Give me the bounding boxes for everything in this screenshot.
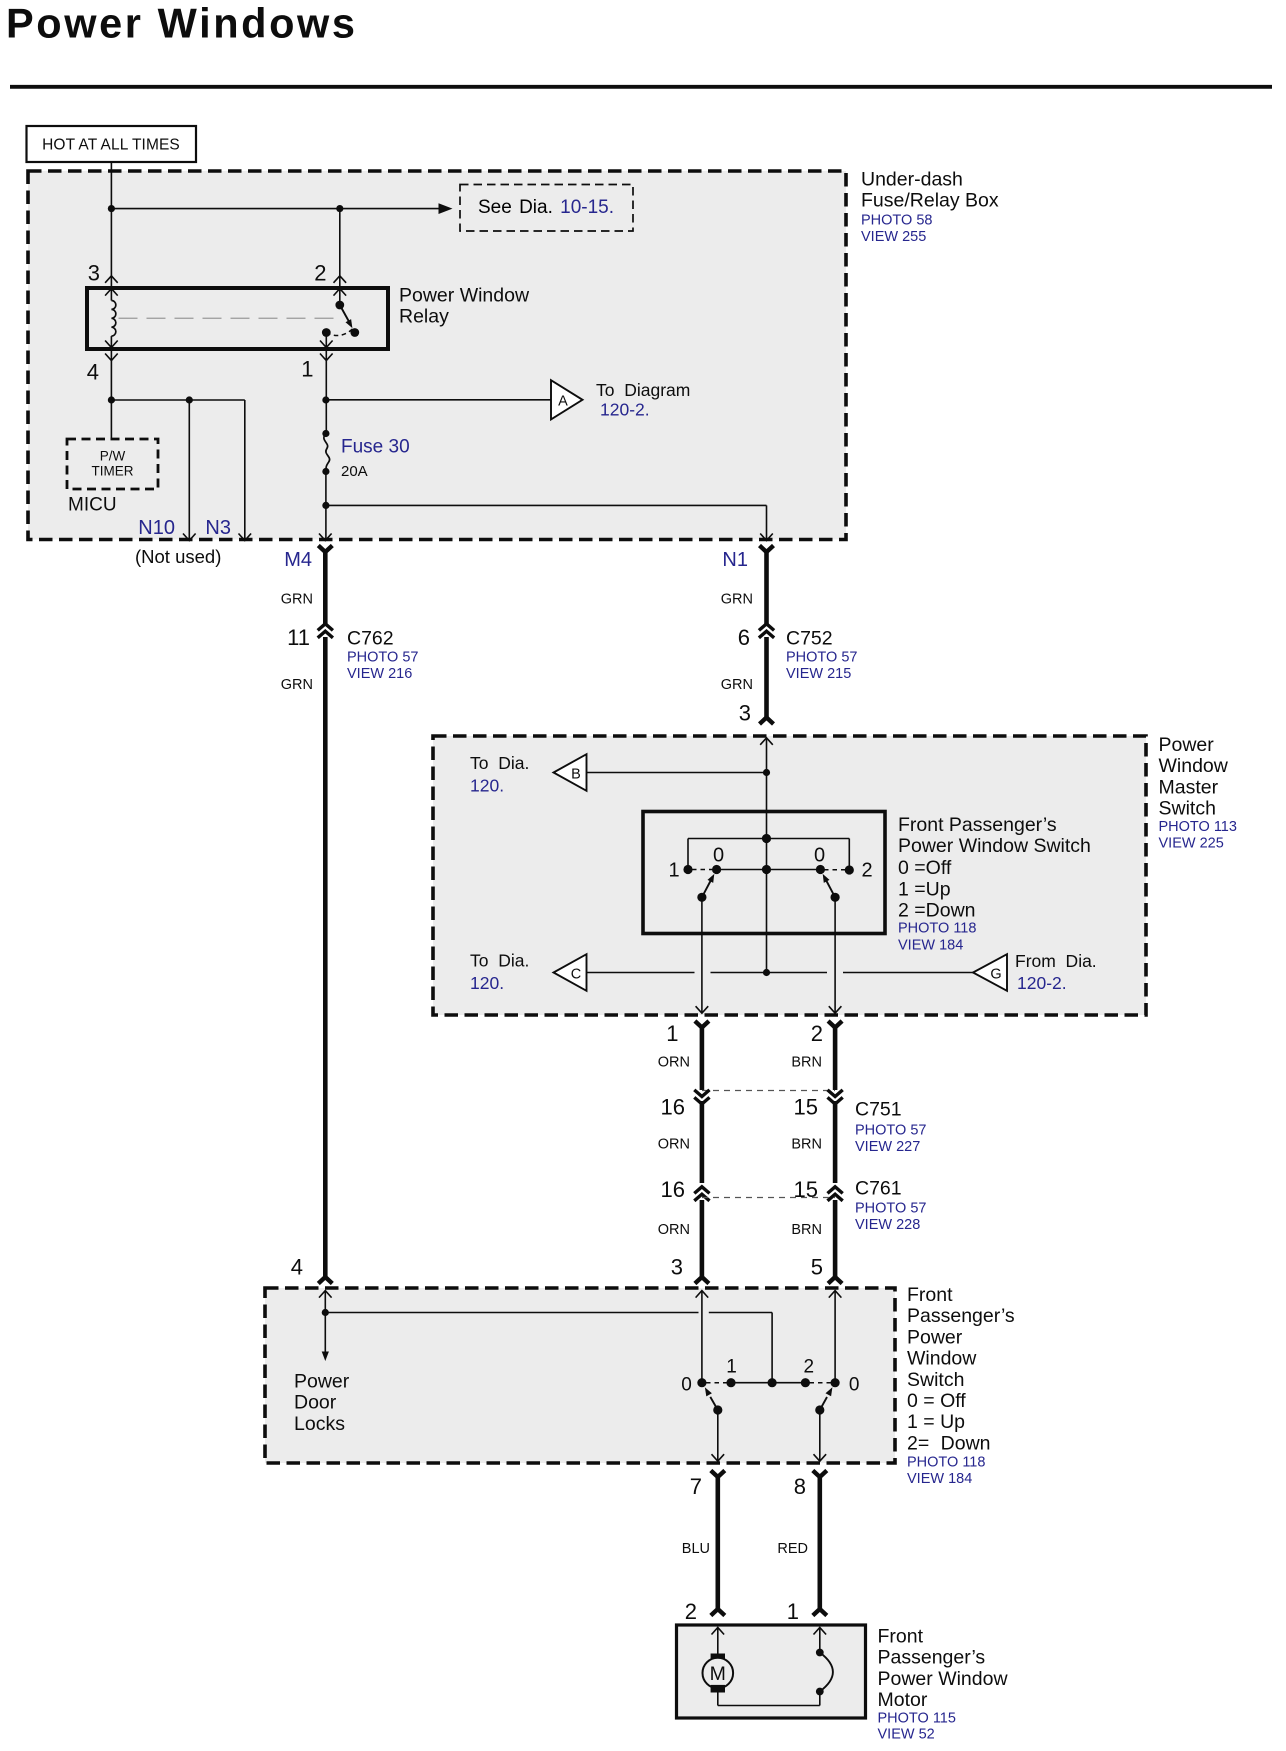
svg-text:0: 0 bbox=[814, 845, 825, 867]
svg-text:0: 0 bbox=[713, 845, 724, 867]
label GRN bbox=[281, 592, 313, 608]
svg-text:VIEW 225: VIEW 225 bbox=[1159, 836, 1224, 852]
pin 2 border chevron (master bottom) bbox=[829, 1006, 842, 1013]
node junction to B bbox=[763, 769, 770, 776]
svg-text:VIEW 216: VIEW 216 bbox=[347, 666, 412, 682]
wire fuse output down bbox=[325, 472, 327, 540]
svg-text:120.: 120. bbox=[470, 973, 504, 993]
svg-text:BRN: BRN bbox=[791, 1055, 822, 1071]
pin 6 label bbox=[738, 625, 750, 650]
svg-text:RED: RED bbox=[777, 1541, 808, 1557]
fuse 30 top node bbox=[322, 430, 329, 437]
fuse 30 bottom node bbox=[322, 468, 329, 475]
svg-text:GRN: GRN bbox=[721, 677, 753, 693]
wire hot feed down to relay pin 3 bbox=[110, 162, 112, 301]
connector C751 symbol left bbox=[694, 1090, 709, 1104]
wire power bus horizontal (lower) bbox=[325, 1312, 772, 1314]
label PHOTO 118 / VIEW 184 (master) bbox=[898, 921, 976, 954]
svg-text:VIEW 255: VIEW 255 bbox=[861, 229, 926, 245]
wire N1 drop bbox=[766, 505, 768, 539]
wire GRN trunk N1 (thick) bbox=[760, 546, 774, 625]
node junction power door locks bbox=[322, 1309, 329, 1316]
svg-text:PHOTO 113: PHOTO 113 bbox=[1159, 819, 1237, 835]
front passenger power window switch box outline bbox=[265, 1288, 895, 1463]
svg-text:1: 1 bbox=[726, 1357, 737, 1378]
label BRN middle bbox=[791, 1137, 822, 1153]
front passenger power window switch (in master) box bbox=[643, 812, 885, 934]
label (Not used) bbox=[135, 546, 221, 567]
pin 4 terminal chevrons bbox=[105, 341, 118, 361]
svg-text:C: C bbox=[571, 967, 581, 983]
label Front Passengers Power Window Switch (lower) bbox=[907, 1284, 1015, 1454]
svg-text:1 =Up: 1 =Up bbox=[898, 879, 951, 901]
wire to triangle A bbox=[326, 399, 551, 401]
label GRN below C762 bbox=[281, 677, 313, 693]
svg-text:120-2.: 120-2. bbox=[1017, 973, 1067, 993]
wire GRN trunk below C762 (thick) bbox=[318, 637, 332, 1284]
wire branch down to relay pin 2 bbox=[339, 209, 341, 305]
pin 3 label lower box bbox=[671, 1255, 683, 1280]
svg-text:3: 3 bbox=[88, 261, 100, 286]
svg-text:120-2.: 120-2. bbox=[600, 400, 650, 420]
svg-text:Power: Power bbox=[1159, 734, 1215, 756]
See Dia. 10-15. reference box bbox=[460, 185, 633, 232]
svg-text:0: 0 bbox=[681, 1375, 692, 1396]
svg-text:From Dia.: From Dia. bbox=[1015, 951, 1097, 971]
wire pin 4 feed down bbox=[324, 1291, 326, 1313]
N1 border chevron bbox=[760, 534, 773, 541]
svg-text:GRN: GRN bbox=[281, 592, 313, 608]
svg-text:VIEW 227: VIEW 227 bbox=[855, 1139, 920, 1155]
wire motor bottom loop bbox=[718, 1692, 820, 1706]
label C761 bbox=[855, 1178, 902, 1200]
arrow to power door locks bbox=[322, 1313, 329, 1362]
svg-text:2: 2 bbox=[685, 1599, 697, 1624]
motor M1 symbol bbox=[703, 1654, 734, 1693]
switch arm left (lower) bbox=[705, 1387, 723, 1414]
svg-text:N3: N3 bbox=[205, 517, 231, 539]
svg-text:ORN: ORN bbox=[658, 1222, 690, 1238]
wire pin 3 feed bbox=[766, 738, 768, 810]
pin 2 label below master bbox=[811, 1021, 823, 1046]
connector triangle A To Diagram 120-2 bbox=[551, 380, 583, 419]
pin 8 border chevron bbox=[814, 1454, 827, 1461]
relay common contact pin 1 bbox=[322, 328, 331, 337]
node bus center bbox=[762, 834, 771, 843]
svg-text:Front: Front bbox=[878, 1626, 924, 1648]
wire pin 5 down to contact (lower) bbox=[834, 1291, 836, 1383]
under-dash fuse/relay box outline bbox=[28, 171, 846, 540]
connector triangle C To Dia 120 bbox=[554, 954, 587, 991]
connector C761 dashed pair line bbox=[702, 1197, 835, 1199]
svg-text:G: G bbox=[990, 967, 1001, 983]
svg-text:15: 15 bbox=[794, 1095, 818, 1120]
label 0 left contact bbox=[713, 845, 724, 867]
label 0 right (lower) bbox=[849, 1375, 860, 1396]
pin 3 label master switch bbox=[739, 701, 751, 726]
svg-text:2: 2 bbox=[861, 860, 872, 882]
svg-text:8: 8 bbox=[794, 1474, 806, 1499]
wire pivot right down to pin 8 bbox=[819, 1410, 821, 1461]
wire BLU (thick) bbox=[711, 1471, 725, 1616]
contact line solid (lower) bbox=[731, 1382, 805, 1384]
svg-text:GRN: GRN bbox=[281, 677, 313, 693]
svg-text:4: 4 bbox=[291, 1255, 303, 1280]
svg-text:16: 16 bbox=[661, 1095, 685, 1120]
pin 5 label lower box bbox=[811, 1255, 823, 1280]
svg-text:To Dia.: To Dia. bbox=[470, 951, 529, 971]
connector C761 symbol left bbox=[694, 1187, 709, 1201]
svg-text:VIEW 228: VIEW 228 bbox=[855, 1217, 920, 1233]
svg-text:PHOTO 57: PHOTO 57 bbox=[855, 1123, 926, 1139]
label M4 bbox=[284, 549, 312, 571]
svg-text:3: 3 bbox=[671, 1255, 683, 1280]
label PHOTO 58 / VIEW 255 bbox=[861, 213, 932, 245]
svg-text:2 =Down: 2 =Down bbox=[898, 900, 976, 922]
svg-text:Master: Master bbox=[1159, 776, 1219, 798]
svg-text:PHOTO 57: PHOTO 57 bbox=[786, 650, 857, 666]
node contact 1 (lower) bbox=[726, 1378, 735, 1387]
node contact 2 bbox=[845, 865, 854, 874]
svg-text:1: 1 bbox=[668, 860, 679, 882]
C-G crossover line bbox=[587, 972, 974, 974]
label PHOTO 113 / VIEW 225 bbox=[1159, 819, 1237, 851]
svg-text:BRN: BRN bbox=[791, 1222, 822, 1238]
pin 1 border chevron (motor) bbox=[814, 1628, 827, 1635]
svg-text:PHOTO 118: PHOTO 118 bbox=[907, 1455, 985, 1471]
label 120-2. (G) bbox=[1017, 973, 1067, 993]
svg-text:PHOTO 118: PHOTO 118 bbox=[898, 921, 976, 937]
svg-text:P/W: P/W bbox=[100, 449, 126, 464]
label BRN lower bbox=[791, 1222, 822, 1238]
svg-text:Window: Window bbox=[907, 1348, 977, 1370]
node junction hot feed bbox=[108, 205, 115, 212]
label Under-dash Fuse/Relay Box bbox=[861, 169, 999, 212]
node contact 0 left (lower) bbox=[697, 1378, 706, 1387]
label C751 bbox=[855, 1099, 902, 1121]
svg-text:PHOTO 57: PHOTO 57 bbox=[347, 650, 418, 666]
label C752 bbox=[786, 628, 833, 650]
pin 2 border chevron (motor) bbox=[712, 1628, 725, 1635]
svg-text:15: 15 bbox=[794, 1177, 818, 1202]
node contact 0 left bbox=[712, 865, 721, 874]
relay coil bbox=[111, 301, 115, 401]
node junction M4/N1 split bbox=[322, 502, 329, 509]
circuit breaker (motor) bbox=[816, 1649, 833, 1696]
pin 1 label motor bbox=[787, 1599, 799, 1624]
svg-text:0: 0 bbox=[849, 1375, 860, 1396]
label GRN right bbox=[721, 592, 753, 608]
wire ORN middle (thick) bbox=[700, 1101, 705, 1183]
svg-text:See Dia. 10-15.: See Dia. 10-15. bbox=[478, 197, 614, 218]
wire to triangle B bbox=[587, 772, 767, 774]
label HOT AT ALL TIMES bbox=[27, 126, 197, 162]
svg-text:PHOTO 57: PHOTO 57 bbox=[855, 1201, 926, 1217]
pin 16 label (C751) bbox=[661, 1095, 685, 1120]
label Power Window Master Switch bbox=[1159, 734, 1229, 820]
wire center feed through inner box bbox=[766, 810, 768, 935]
node junction to diagram A bbox=[322, 396, 329, 403]
svg-text:1: 1 bbox=[666, 1021, 678, 1046]
svg-text:Power: Power bbox=[294, 1371, 350, 1393]
dashed throw left (lower) bbox=[706, 1382, 727, 1384]
label 1 (lower) bbox=[726, 1357, 737, 1378]
wire relay pin1 down bbox=[325, 333, 327, 434]
node junction center on C-G line bbox=[763, 969, 770, 976]
svg-text:Switch: Switch bbox=[1159, 798, 1216, 820]
label Front Passengers Power Window Switch bbox=[898, 814, 1091, 922]
relay arm dashed throw bbox=[326, 329, 352, 336]
svg-text:2: 2 bbox=[811, 1021, 823, 1046]
title rule bbox=[10, 85, 1272, 89]
pin 1 label bbox=[301, 357, 313, 382]
label 2 (lower) bbox=[804, 1357, 815, 1378]
svg-text:Passenger’s: Passenger’s bbox=[907, 1305, 1015, 1327]
label ORN middle bbox=[658, 1137, 690, 1153]
svg-text:BRN: BRN bbox=[791, 1137, 822, 1153]
pin 2 terminal chevrons bbox=[334, 276, 347, 296]
svg-text:VIEW 215: VIEW 215 bbox=[786, 666, 851, 682]
svg-text:4: 4 bbox=[87, 360, 99, 385]
svg-text:N10: N10 bbox=[138, 517, 175, 539]
svg-text:Front: Front bbox=[907, 1284, 953, 1306]
svg-text:To Dia.: To Dia. bbox=[470, 753, 529, 773]
switch arm right (master) bbox=[823, 874, 840, 902]
wire GRN below C752 (thick) bbox=[760, 637, 774, 724]
label 1 contact bbox=[668, 860, 679, 882]
wire to See Dia arrow bbox=[111, 208, 438, 210]
svg-text:Motor: Motor bbox=[878, 1689, 928, 1711]
node center middle bbox=[762, 865, 771, 874]
wire N10 drop bbox=[188, 400, 190, 540]
label Power Window Relay bbox=[399, 285, 530, 328]
node junction N10 branch bbox=[186, 396, 193, 403]
label PHOTO 57 / VIEW 216 bbox=[347, 650, 418, 683]
wire BRN lower (thick) bbox=[828, 1200, 842, 1284]
svg-text:7: 7 bbox=[690, 1474, 702, 1499]
svg-text:TIMER: TIMER bbox=[92, 464, 134, 479]
pin 4 border chevron (lower) bbox=[319, 1291, 332, 1298]
pin 7 label bbox=[690, 1474, 702, 1499]
wire BRN middle (thick) bbox=[833, 1101, 838, 1183]
svg-text:B: B bbox=[571, 767, 581, 783]
connector C751 symbol right bbox=[828, 1090, 843, 1104]
wire center feed down to C/G line bbox=[766, 935, 768, 973]
svg-text:6: 6 bbox=[738, 625, 750, 650]
pin 1 terminal chevrons bbox=[320, 341, 333, 361]
dashed throw left (master) bbox=[692, 869, 713, 871]
label N1 bbox=[722, 549, 748, 571]
svg-text:N1: N1 bbox=[722, 549, 748, 571]
label BLU bbox=[682, 1541, 710, 1557]
wire ORN lower (thick) bbox=[695, 1200, 709, 1284]
pin 3 border chevron (lower) bbox=[696, 1291, 709, 1298]
svg-text:Power Windows: Power Windows bbox=[6, 0, 358, 47]
label N10 bbox=[138, 517, 175, 539]
wire pivot left down to pin 7 bbox=[717, 1410, 719, 1461]
wire pin 3 down to contact (lower) bbox=[701, 1291, 703, 1383]
svg-text:Window: Window bbox=[1159, 755, 1229, 777]
svg-text:5: 5 bbox=[811, 1255, 823, 1280]
front passenger power window motor box bbox=[677, 1625, 866, 1718]
label 0 right contact bbox=[814, 845, 825, 867]
label RED bbox=[777, 1541, 808, 1557]
node contact 0 right (lower) bbox=[831, 1378, 840, 1387]
svg-text:0 =Off: 0 =Off bbox=[898, 857, 952, 879]
svg-text:M4: M4 bbox=[284, 549, 312, 571]
svg-text:ORN: ORN bbox=[658, 1055, 690, 1071]
wire pin 1 to breaker bbox=[819, 1628, 821, 1653]
node junction pin 4 bbox=[108, 396, 115, 403]
svg-text:MICU: MICU bbox=[68, 495, 117, 516]
connector triangle G From Dia 120-2 bbox=[973, 954, 1007, 991]
P/W TIMER box bbox=[67, 439, 158, 489]
label 20A bbox=[341, 463, 368, 480]
svg-text:1 = Up: 1 = Up bbox=[907, 1411, 965, 1433]
pin 4 label lower box bbox=[291, 1255, 303, 1280]
svg-text:Under-dash: Under-dash bbox=[861, 169, 963, 191]
label 120. (C) bbox=[470, 973, 504, 993]
label PHOTO 115 / VIEW 52 bbox=[878, 1710, 956, 1742]
svg-text:11: 11 bbox=[287, 625, 310, 650]
pin 4 label bbox=[87, 360, 99, 385]
fuse 30 element bbox=[324, 434, 330, 472]
N3 border chevron bbox=[239, 534, 252, 541]
svg-text:20A: 20A bbox=[341, 463, 368, 480]
label 120-2. bbox=[600, 400, 650, 420]
svg-text:0 = Off: 0 = Off bbox=[907, 1390, 966, 1412]
wire pin 2 to motor bbox=[717, 1628, 719, 1655]
pin 15 label (C761) bbox=[794, 1177, 818, 1202]
dashed throw right (lower) bbox=[810, 1382, 832, 1384]
svg-text:1: 1 bbox=[301, 357, 313, 382]
svg-text:Power: Power bbox=[907, 1326, 963, 1348]
switch arm left (master) bbox=[697, 874, 714, 902]
connector C751 dashed pair line bbox=[702, 1090, 835, 1092]
svg-text:120.: 120. bbox=[470, 776, 504, 796]
wire pin 4 into P/W timer bbox=[110, 400, 112, 439]
svg-text:Switch: Switch bbox=[907, 1369, 964, 1391]
arrow to See Dia box bbox=[439, 203, 453, 214]
label Fuse 30 bbox=[341, 437, 410, 458]
power window master switch box outline bbox=[433, 736, 1146, 1015]
svg-text:Relay: Relay bbox=[399, 306, 449, 328]
svg-text:ORN: ORN bbox=[658, 1137, 690, 1153]
pin 5 border chevron (lower) bbox=[829, 1291, 842, 1298]
inner bus bar bbox=[688, 839, 849, 871]
label 0 left (lower) bbox=[681, 1375, 692, 1396]
label Front Passengers Power Window Motor bbox=[878, 1626, 1009, 1712]
svg-text:Locks: Locks bbox=[294, 1413, 345, 1435]
pin 15 label (C751) bbox=[794, 1095, 818, 1120]
relay linkage dashed bbox=[119, 317, 337, 319]
svg-text:PHOTO 115: PHOTO 115 bbox=[878, 1710, 956, 1726]
svg-text:GRN: GRN bbox=[721, 592, 753, 608]
relay arm end contact bbox=[350, 328, 359, 337]
svg-text:2= Down: 2= Down bbox=[907, 1432, 991, 1454]
pin 11 label bbox=[287, 625, 310, 650]
svg-text:HOT AT ALL TIMES: HOT AT ALL TIMES bbox=[42, 137, 180, 154]
svg-text:Power Window: Power Window bbox=[878, 1668, 1009, 1690]
pin 2 label bbox=[314, 261, 326, 286]
svg-text:C761: C761 bbox=[855, 1178, 902, 1200]
svg-text:Power Window: Power Window bbox=[399, 285, 530, 307]
svg-text:2: 2 bbox=[804, 1357, 815, 1378]
wire N3 drop bbox=[244, 400, 246, 540]
svg-text:Front Passenger’s: Front Passenger’s bbox=[898, 814, 1057, 836]
node bus drop contact (lower) bbox=[768, 1378, 777, 1387]
inner middle line bbox=[717, 869, 821, 871]
label GRN right lower bbox=[721, 677, 753, 693]
svg-text:A: A bbox=[558, 394, 568, 410]
label ORN lower bbox=[658, 1222, 690, 1238]
connector triangle B To Dia 120 bbox=[554, 754, 587, 791]
label To Diagram bbox=[596, 380, 690, 400]
N10 border chevron bbox=[183, 534, 196, 541]
relay contact pin 2 bbox=[335, 301, 344, 310]
svg-text:(Not used): (Not used) bbox=[135, 546, 221, 567]
wire pivot left down to pin 1 bbox=[701, 897, 703, 1013]
svg-text:BLU: BLU bbox=[682, 1541, 710, 1557]
relay movable arm bbox=[340, 305, 353, 328]
label 120. (B) bbox=[470, 776, 504, 796]
connector C752 symbol bbox=[759, 624, 774, 638]
node contact 0 right bbox=[816, 865, 825, 874]
node junction relay pin 2 branch bbox=[336, 205, 343, 212]
wire pin4 horizontal bbox=[111, 399, 244, 401]
pin 3 label bbox=[88, 261, 100, 286]
pin 2 label motor bbox=[685, 1599, 697, 1624]
svg-text:VIEW 52: VIEW 52 bbox=[878, 1727, 935, 1743]
wire power bus drop (lower) bbox=[771, 1313, 773, 1383]
label MICU bbox=[68, 495, 117, 516]
pin 8 label bbox=[794, 1474, 806, 1499]
label BRN upper bbox=[791, 1055, 822, 1071]
svg-text:2: 2 bbox=[314, 261, 326, 286]
svg-text:VIEW 184: VIEW 184 bbox=[907, 1471, 972, 1487]
connector C761 symbol right bbox=[828, 1187, 843, 1201]
label From Dia. bbox=[1015, 951, 1097, 971]
pin 3 terminal chevrons bbox=[105, 276, 118, 296]
svg-text:1: 1 bbox=[787, 1599, 799, 1624]
svg-text:Door: Door bbox=[294, 1392, 337, 1414]
svg-text:PHOTO 58: PHOTO 58 bbox=[861, 213, 932, 229]
svg-text:Passenger’s: Passenger’s bbox=[878, 1647, 986, 1669]
title Power Windows bbox=[6, 0, 358, 47]
pin 1 label below master bbox=[666, 1021, 678, 1046]
switch arm right (lower) bbox=[815, 1387, 832, 1414]
label PHOTO 118 / VIEW 184 (lower) bbox=[907, 1455, 985, 1488]
label ORN upper bbox=[658, 1055, 690, 1071]
svg-text:C752: C752 bbox=[786, 628, 833, 650]
wire BRN upper (thick) bbox=[828, 1021, 842, 1090]
svg-text:16: 16 bbox=[661, 1177, 685, 1202]
label PHOTO 57 / VIEW 228 bbox=[855, 1201, 926, 1234]
wire GRN trunk M4 (thick) bbox=[318, 546, 332, 625]
svg-text:Fuse/Relay Box: Fuse/Relay Box bbox=[861, 190, 999, 212]
label N3 bbox=[205, 517, 231, 539]
label 2 contact bbox=[861, 860, 872, 882]
label To Dia. (C) bbox=[470, 951, 529, 971]
label PHOTO 57 / VIEW 215 bbox=[786, 650, 857, 683]
svg-text:Fuse 30: Fuse 30 bbox=[341, 437, 410, 458]
label To Dia. (B) bbox=[470, 753, 529, 773]
pin 16 label (C761) bbox=[661, 1177, 685, 1202]
wire ORN upper (thick) bbox=[695, 1021, 709, 1090]
power window relay box bbox=[87, 288, 388, 349]
svg-text:C751: C751 bbox=[855, 1099, 902, 1121]
label Power Door Locks bbox=[294, 1371, 350, 1435]
